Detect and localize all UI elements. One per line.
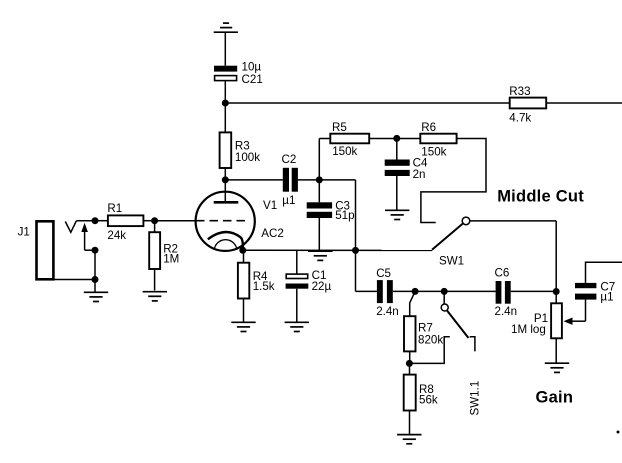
switch SW1.1 pivot lead xyxy=(443,291,445,304)
capacitor C1 xyxy=(296,250,298,273)
wire top rail to R33 xyxy=(225,102,509,104)
svg-text:R6: R6 xyxy=(421,121,436,134)
svg-text:R5: R5 xyxy=(332,121,347,134)
resistor R33 xyxy=(510,98,547,109)
svg-text:24k: 24k xyxy=(107,229,126,242)
resistor R3 xyxy=(220,132,232,168)
potentiometer P1 xyxy=(555,292,557,304)
node junction switch contact xyxy=(92,247,99,254)
wire C6 to P1 node xyxy=(511,290,557,292)
SW1.1 open contact bracket xyxy=(470,337,475,352)
node junction cathode xyxy=(239,247,246,254)
P1 wiper arrow xyxy=(572,320,586,322)
capacitor C4 xyxy=(396,139,398,160)
wire power to C21 xyxy=(224,32,226,65)
node junction R5/R6/C4 xyxy=(393,135,400,142)
wire C21 to node B+ xyxy=(224,81,226,103)
svg-text:51p: 51p xyxy=(335,209,354,222)
svg-text:SW1: SW1 xyxy=(439,255,464,268)
svg-text:1M: 1M xyxy=(163,253,179,266)
ground C3 xyxy=(308,251,332,260)
svg-text:C5: C5 xyxy=(376,267,391,280)
wire C2 to node xyxy=(298,179,319,181)
svg-text:µ1: µ1 xyxy=(282,194,295,207)
ground R2 xyxy=(143,292,167,301)
wire R6 to SW1 upper contact (stepped) xyxy=(421,139,486,223)
J1 tip contact V xyxy=(65,221,76,232)
ground P1 xyxy=(545,363,569,372)
V1 cathode arc xyxy=(208,232,243,250)
svg-text:R1: R1 xyxy=(107,202,122,215)
svg-text:1.5k: 1.5k xyxy=(253,280,275,293)
J1 switch contact arrow xyxy=(81,223,88,232)
capacitor C2 xyxy=(283,168,289,192)
V1 anode plate xyxy=(214,201,239,204)
svg-text:56k: 56k xyxy=(419,394,438,407)
svg-text:10µ: 10µ xyxy=(242,60,262,73)
wire bottom row to C5 xyxy=(356,290,377,292)
wire R33 to right edge xyxy=(546,102,622,104)
capacitor C6 xyxy=(496,281,502,304)
node junction R3/C2/anode xyxy=(222,176,229,183)
svg-text:R33: R33 xyxy=(509,85,530,98)
svg-text:820k: 820k xyxy=(418,334,443,347)
V1 grid dashed line xyxy=(196,220,246,222)
node junction sleeve/ground xyxy=(92,276,99,283)
switch SW1 arm xyxy=(432,223,463,250)
wire node right xyxy=(319,179,355,181)
wire node to C2 xyxy=(225,179,282,181)
ground R8 xyxy=(397,435,421,444)
wire node to SW1.1 lower contact xyxy=(409,337,449,364)
svg-text:Middle Cut: Middle Cut xyxy=(497,187,584,205)
svg-text:2n: 2n xyxy=(413,168,426,181)
svg-text:C2: C2 xyxy=(282,153,297,166)
triode V1 envelope xyxy=(196,192,255,251)
node junction C6/SW1/P1 xyxy=(553,288,560,295)
ground R4 xyxy=(231,322,255,331)
node junction R7/R8/SW1.1 xyxy=(406,360,413,367)
svg-text:SW1.1: SW1.1 xyxy=(469,381,482,416)
ground C1 xyxy=(285,322,309,331)
switch SW1.1 arm xyxy=(447,310,469,338)
wire node up to R5 xyxy=(318,139,320,180)
wire cathode row xyxy=(243,249,432,251)
power rail symbol (inverted ground) xyxy=(214,23,238,32)
wire node to R3 xyxy=(224,103,226,132)
svg-text:100k: 100k xyxy=(235,151,260,164)
node junction tip/R1 xyxy=(92,217,99,224)
svg-text:µ1: µ1 xyxy=(600,290,613,303)
capacitor C21 xyxy=(214,66,237,81)
node junction at C21/R3/rail xyxy=(222,100,229,107)
svg-text:2.4n: 2.4n xyxy=(376,305,399,318)
svg-text:150k: 150k xyxy=(332,145,357,158)
svg-text:C21: C21 xyxy=(242,73,263,86)
wire node to ground xyxy=(94,280,96,293)
wire contact node down xyxy=(94,250,96,279)
V1 anode lead xyxy=(224,180,226,202)
wire node to R7 xyxy=(410,291,415,316)
ground J1 xyxy=(84,292,108,301)
wire R5 to node xyxy=(369,138,420,140)
wire tip to grid node xyxy=(76,220,95,222)
wire C5 to C6 xyxy=(393,290,496,292)
node junction SW1.1 tap xyxy=(441,288,448,295)
resistor R1 xyxy=(95,220,108,222)
node junction R7 tap xyxy=(412,288,419,295)
resistor R4 xyxy=(243,250,245,262)
switch SW1 pivot circle xyxy=(462,217,470,225)
wire down to cathode row xyxy=(355,180,357,292)
resistor R5 xyxy=(330,134,369,144)
svg-text:C6: C6 xyxy=(495,267,510,280)
svg-text:Gain: Gain xyxy=(536,388,574,406)
connector J1 xyxy=(37,221,54,279)
node junction C2/R5/C3 xyxy=(316,176,323,183)
wire C7 to right edge xyxy=(586,262,622,283)
node junction R1/R2/grid xyxy=(151,217,158,224)
wire wiper to C7 xyxy=(585,300,587,322)
resistor R6 xyxy=(420,134,456,144)
stray dot xyxy=(617,431,620,434)
node junction crossing cathode wire xyxy=(352,247,359,254)
resistor R2 xyxy=(154,221,156,233)
switch SW1.1 pivot circle xyxy=(441,304,448,311)
svg-text:1M log: 1M log xyxy=(511,323,546,336)
wire node to V1 grid xyxy=(155,220,196,222)
capacitor C7 xyxy=(575,283,596,288)
wire R3 to anode node xyxy=(224,168,226,180)
svg-text:22µ: 22µ xyxy=(312,280,332,293)
svg-text:4.7k: 4.7k xyxy=(509,112,531,125)
resistor R7 xyxy=(404,316,416,351)
svg-text:AC2: AC2 xyxy=(261,227,284,240)
resistor R8 xyxy=(409,363,411,374)
capacitor C5 xyxy=(377,280,383,303)
capacitor C3 xyxy=(318,180,320,202)
svg-text:V1: V1 xyxy=(263,199,277,212)
wire SW1 to output node xyxy=(470,220,556,222)
ground C4 xyxy=(385,210,409,219)
svg-text:2.4n: 2.4n xyxy=(495,305,518,318)
wire J1 sleeve to ground node xyxy=(54,279,95,281)
V1 heater arc xyxy=(214,240,237,250)
svg-text:J1: J1 xyxy=(18,226,30,239)
